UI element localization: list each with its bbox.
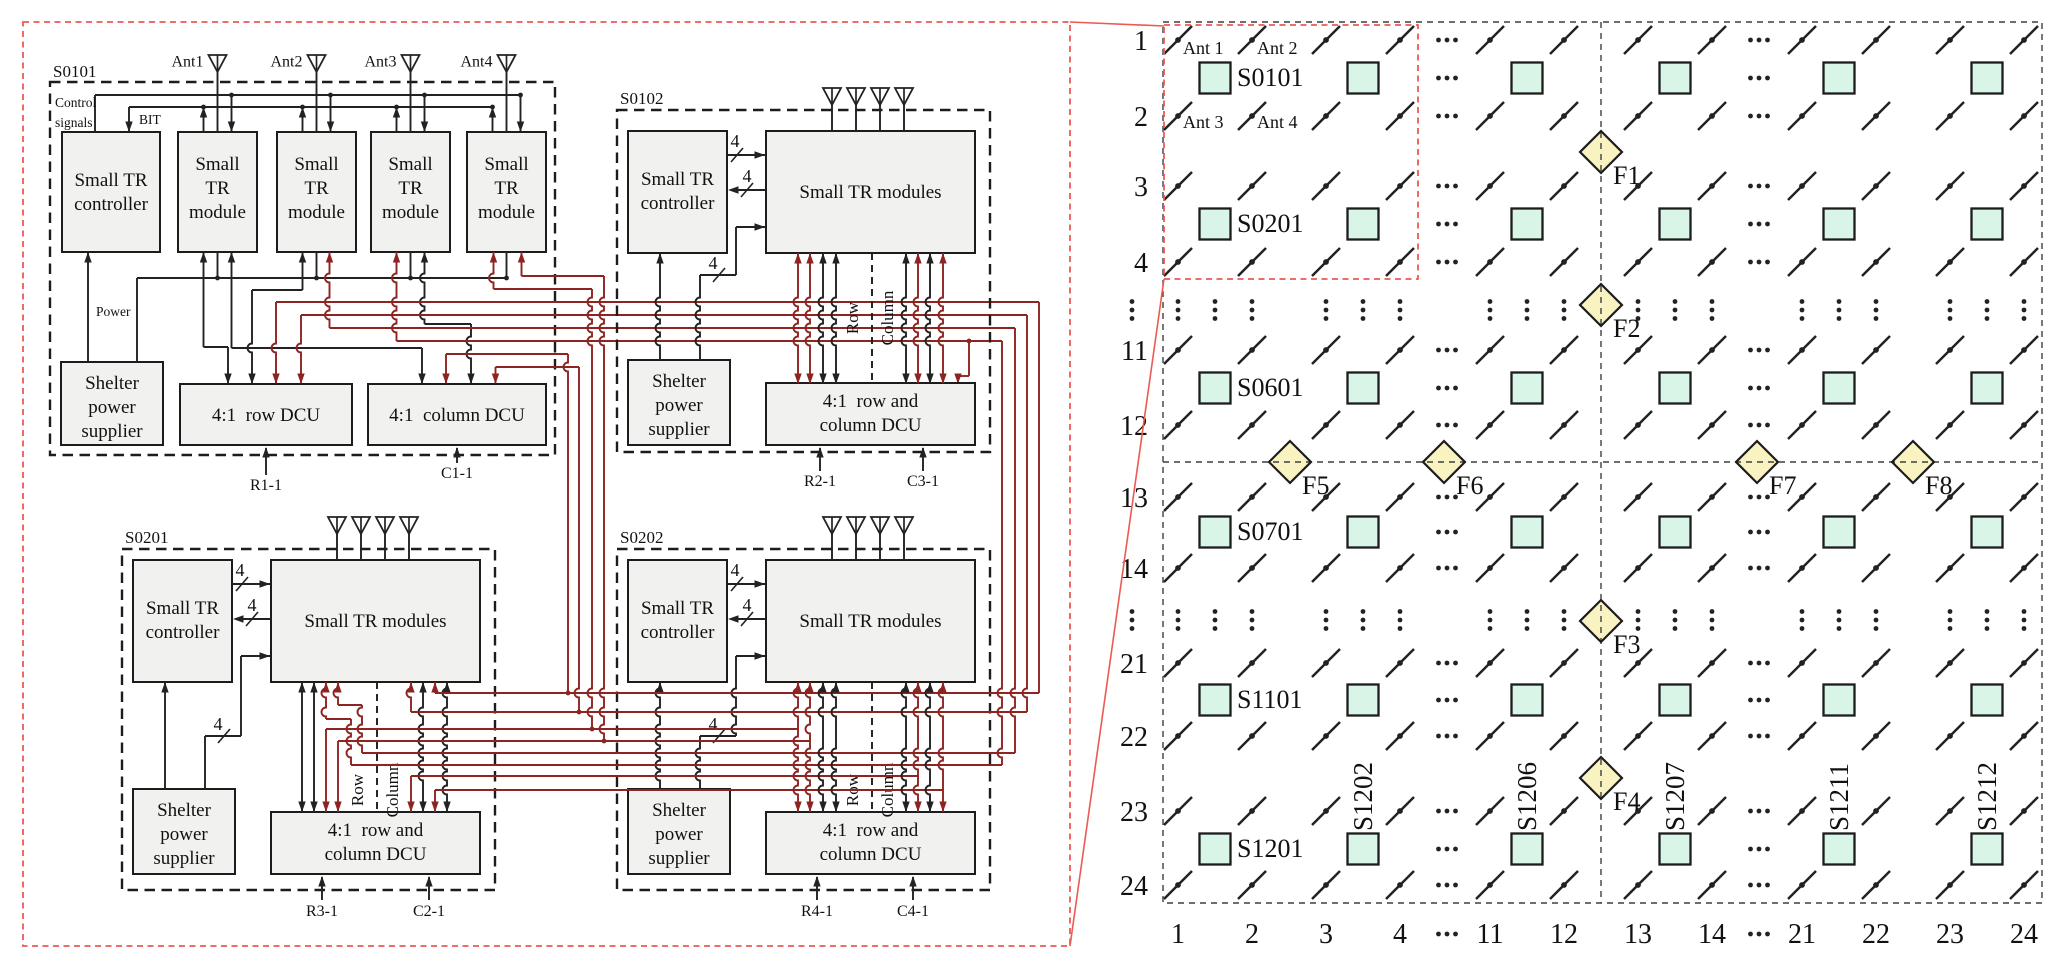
svg-text:TR: TR [494, 178, 519, 199]
interconnect bus L8 [492, 367, 582, 714]
interconnect bus L6 [392, 252, 1002, 765]
svg-text:Small TR modules: Small TR modules [799, 611, 941, 632]
svg-text:R3-1: R3-1 [306, 903, 338, 920]
small TR module M2 [277, 132, 356, 252]
svg-text:TR: TR [398, 178, 423, 199]
svg-text:supplier: supplier [648, 419, 710, 440]
S0102 small TR controller [628, 131, 727, 253]
label F7 [1769, 471, 1796, 500]
svg-text:23: 23 [1936, 919, 1964, 950]
svg-text:Small TR: Small TR [146, 598, 219, 619]
svg-text:supplier: supplier [81, 421, 143, 442]
svg-text:Power: Power [96, 304, 131, 319]
svg-text:S0101: S0101 [1237, 63, 1303, 92]
interconnect bus L7 [442, 354, 570, 695]
svg-text:power: power [88, 397, 136, 418]
svg-text:F3: F3 [1613, 630, 1640, 659]
svg-text:4: 4 [1393, 919, 1407, 950]
svg-text:14: 14 [1698, 919, 1726, 950]
svg-text:controller: controller [146, 622, 221, 643]
lower bus Y6 [322, 682, 1003, 765]
svg-text:24: 24 [1120, 871, 1148, 902]
svg-text:power: power [655, 824, 703, 845]
svg-text:22: 22 [1120, 722, 1148, 753]
svg-text:4: 4 [731, 131, 740, 151]
antenna array row 1 [1164, 26, 2038, 54]
wire M2 to row DCU [248, 252, 307, 384]
label F1 [1613, 161, 1640, 190]
interconnect bus L2 [489, 252, 594, 731]
subsystem S0101 dashed box [50, 62, 555, 455]
svg-text:R4-1: R4-1 [801, 903, 833, 920]
svg-text:2: 2 [1245, 919, 1259, 950]
interconnect bus L5 [325, 252, 1015, 753]
S0202 wire modules-DCU v823 [819, 682, 827, 812]
svg-text:controller: controller [641, 622, 716, 643]
svg-text:Ant3: Ant3 [365, 54, 397, 71]
svg-text:S0701: S0701 [1237, 517, 1303, 546]
feed diamond F7 [1736, 441, 1778, 483]
S0201 wire modules-DCU v302 [298, 682, 305, 812]
antenna Ant3 [365, 54, 420, 133]
svg-text:Ant4: Ant4 [461, 54, 493, 71]
subsystem S0202 dashed box [617, 528, 990, 890]
node R4-1 [801, 876, 833, 920]
svg-text:Ant 3: Ant 3 [1183, 112, 1224, 132]
svg-text:Shelter: Shelter [652, 800, 706, 821]
lower bus Y2 [407, 682, 1028, 712]
node C4-1 [897, 876, 929, 920]
subsystem S0201 dashed box [122, 528, 495, 890]
svg-text:F2: F2 [1613, 314, 1640, 343]
svg-text:power: power [160, 824, 208, 845]
S0102 power bus 4 to modules [696, 223, 766, 360]
svg-text:S1201: S1201 [1237, 834, 1303, 863]
svg-text:TR: TR [205, 178, 230, 199]
svg-text:supplier: supplier [153, 848, 215, 869]
shelter power supplier PS1 [61, 362, 163, 445]
interconnect bus L4 [297, 315, 1028, 712]
feed diamond F3 [1580, 600, 1622, 642]
S0201 antennas [328, 517, 418, 560]
svg-text:2: 2 [1134, 102, 1148, 133]
svg-text:R2-1: R2-1 [804, 473, 836, 490]
S0202 small TR controller [628, 560, 727, 682]
svg-text:S1101: S1101 [1237, 685, 1303, 714]
S0202 wire modules-DCU v930 [926, 682, 934, 812]
subarray squares row S06xx [1200, 373, 2003, 404]
svg-text:Small TR modules: Small TR modules [304, 611, 446, 632]
feed diamond F6 [1423, 441, 1465, 483]
svg-text:4:1 row and: 4:1 row and [328, 820, 424, 841]
svg-text:Control: Control [55, 95, 97, 110]
svg-text:3: 3 [1319, 919, 1333, 950]
S0201 4:1 row and column DCU [271, 812, 480, 874]
svg-text:controller: controller [74, 194, 149, 215]
BIT status bus [125, 105, 496, 132]
svg-text:1: 1 [1134, 26, 1148, 57]
svg-text:11: 11 [1121, 336, 1148, 367]
S0202 shelter power supplier [628, 789, 730, 874]
antenna Ant1 [172, 54, 227, 133]
S0202 4:1 row and column DCU [766, 812, 975, 874]
antenna Ant4 [461, 54, 516, 133]
svg-text:4:1 row and: 4:1 row and [823, 391, 919, 412]
antenna array row 22 [1164, 722, 2038, 750]
svg-text:4: 4 [248, 595, 257, 615]
svg-text:F8: F8 [1925, 471, 1952, 500]
svg-text:Ant 2: Ant 2 [1257, 38, 1298, 58]
subarray squares row S02xx [1200, 209, 2003, 240]
4:1 column DCU [368, 384, 546, 445]
lower bus Y8 [431, 682, 946, 812]
S0102 4:1 row and column DCU [766, 383, 975, 445]
lower bus Y5 [334, 682, 1016, 753]
antenna array row 2 [1164, 102, 2038, 130]
svg-text:Small: Small [484, 154, 528, 175]
S0201 power wire to controller [161, 682, 168, 789]
array antenna labels Ant1-Ant4 [1183, 38, 1298, 132]
S0202 wire modules-DCU v906 [902, 682, 910, 812]
node R3-1 [306, 876, 338, 920]
svg-text:4: 4 [709, 253, 718, 273]
svg-text:controller: controller [641, 193, 716, 214]
subarray squares row S07xx [1200, 517, 2003, 548]
S0201 internal row column divider [348, 682, 402, 817]
svg-text:S1211: S1211 [1824, 763, 1854, 831]
svg-text:supplier: supplier [648, 848, 710, 869]
svg-text:BIT: BIT [139, 112, 162, 127]
svg-text:Small TR modules: Small TR modules [799, 182, 941, 203]
array ellipsis dots [1130, 38, 2027, 937]
feed diamond outlines redraw [1269, 131, 1934, 799]
svg-text:module: module [478, 202, 535, 223]
4:1 row DCU [180, 384, 352, 445]
svg-text:23: 23 [1120, 797, 1148, 828]
subarray squares row S01xx [1200, 63, 2003, 94]
wire M1 to column DCU [228, 252, 426, 384]
small TR controller U1 [62, 132, 160, 252]
node R1-1 [250, 447, 282, 494]
svg-text:S1207: S1207 [1660, 762, 1690, 831]
svg-text:S1202: S1202 [1348, 762, 1378, 831]
svg-text:Small: Small [195, 154, 239, 175]
svg-text:Row: Row [348, 773, 367, 806]
svg-text:Small TR: Small TR [641, 598, 714, 619]
node C3-1 [907, 447, 939, 490]
svg-text:3: 3 [1134, 172, 1148, 203]
S0202 internal row column divider [843, 682, 897, 817]
label F4 [1613, 787, 1640, 816]
power bus wire [137, 252, 509, 362]
S0201 small TR modules [271, 560, 480, 682]
S0202 wire DCU v810 lower [806, 741, 814, 812]
svg-text:signals: signals [55, 115, 93, 130]
S0201 wire modules-DCU v447 [443, 682, 451, 812]
lower bus Y1 [431, 682, 1039, 693]
power wire PS1 to controller [84, 252, 131, 362]
subarray labels [1237, 63, 2002, 863]
small TR module M4 [467, 132, 546, 252]
svg-text:1: 1 [1171, 919, 1185, 950]
svg-text:Ant 1: Ant 1 [1183, 38, 1224, 58]
subsystem S0102 dashed box [617, 89, 990, 452]
S0202 antennas [823, 517, 913, 560]
S0102 wire modules-DCU v943 [939, 253, 947, 384]
svg-text:column DCU: column DCU [820, 844, 922, 865]
S0201 wire modules-DCU v314 [310, 682, 317, 812]
svg-text:S1212: S1212 [1972, 762, 2002, 831]
small TR module M3 [371, 132, 450, 252]
svg-text:12: 12 [1550, 919, 1578, 950]
lower bus Y7 [407, 682, 921, 812]
S0102 wire modules-DCU v810 [806, 253, 814, 384]
S0102 control bus 4 to modules [727, 131, 765, 162]
antenna array row 11 [1164, 336, 2038, 364]
label F8 [1925, 471, 1952, 500]
S0201 small TR controller [133, 560, 232, 682]
S0102 wire modules-DCU v798 [794, 253, 802, 384]
S0102 wire modules-DCU v906 [902, 253, 910, 384]
antenna array row 23 [1164, 797, 2038, 825]
small TR module M1 [178, 132, 257, 252]
svg-text:Shelter: Shelter [85, 373, 139, 394]
svg-text:4: 4 [743, 595, 752, 615]
S0102 antennas [823, 88, 913, 131]
svg-text:S0601: S0601 [1237, 373, 1303, 402]
svg-text:module: module [288, 202, 345, 223]
svg-text:Column: Column [878, 290, 897, 345]
svg-text:F6: F6 [1456, 471, 1483, 500]
svg-text:module: module [382, 202, 439, 223]
lower bus Y3 [322, 682, 801, 812]
subarray squares row S11xx [1200, 685, 2003, 716]
interconnect bus L1 [518, 252, 607, 743]
svg-text:4:1 column DCU: 4:1 column DCU [389, 405, 525, 426]
antenna array row 3 [1164, 172, 2038, 200]
S0102 small TR modules [766, 131, 975, 253]
S0102 internal row column divider [843, 253, 897, 383]
svg-text:Small TR: Small TR [641, 169, 714, 190]
antenna array row 12 [1164, 411, 2038, 439]
S0102 wire modules-DCU v823 [819, 253, 827, 384]
S0201 status bus 4 to controller [233, 595, 271, 626]
S0202 wire modules-DCU v836 [832, 682, 840, 812]
svg-text:C2-1: C2-1 [413, 903, 445, 920]
zoom callout red dashed boxes [23, 22, 1418, 946]
antenna array row 24 [1164, 871, 2038, 899]
S0202 power bus 4 to modules [696, 652, 766, 789]
svg-text:S0201: S0201 [1237, 209, 1303, 238]
feed diamond F4 [1580, 757, 1622, 799]
svg-text:Ant1: Ant1 [172, 54, 204, 71]
S0102 status bus 4 to controller [728, 166, 766, 197]
label F5 [1302, 471, 1329, 500]
S0102 shelter power supplier [628, 360, 730, 445]
svg-text:4: 4 [236, 560, 245, 580]
svg-text:11: 11 [1477, 919, 1504, 950]
S0201 shelter power supplier [133, 789, 235, 874]
svg-text:Ant2: Ant2 [271, 54, 303, 71]
svg-text:13: 13 [1624, 919, 1652, 950]
antenna array row 21 [1164, 649, 2038, 677]
S0201 power bus 4 to modules [205, 652, 270, 789]
feed diamond F1 [1580, 131, 1622, 173]
grid row labels [1120, 26, 1148, 902]
grid column labels [1171, 919, 2038, 950]
S0102 wire modules-DCU v836 [832, 253, 840, 384]
S0202 wire DCU v798 lower [794, 729, 802, 812]
feed diamond F2 [1580, 284, 1622, 326]
svg-text:C3-1: C3-1 [907, 473, 939, 490]
svg-text:Column: Column [383, 762, 402, 817]
svg-text:S0201: S0201 [125, 528, 168, 547]
control signals bus [55, 93, 524, 132]
wire M1 to row DCU [200, 252, 232, 384]
S0102 power wire to controller [656, 253, 664, 360]
subarray squares row S12xx [1200, 834, 2003, 865]
wire M3 to column DCU [420, 252, 475, 384]
lower bus Y4 [334, 682, 813, 812]
feed diamond F8 [1892, 441, 1934, 483]
svg-text:4:1 row DCU: 4:1 row DCU [212, 405, 320, 426]
node R2-1 [804, 447, 836, 490]
S0102 wire modules-DCU v918 [914, 253, 922, 384]
svg-text:column DCU: column DCU [325, 844, 427, 865]
svg-text:21: 21 [1788, 919, 1816, 950]
svg-text:24: 24 [2010, 919, 2038, 950]
svg-text:4:1 row and: 4:1 row and [823, 820, 919, 841]
svg-text:Shelter: Shelter [157, 800, 211, 821]
svg-text:4: 4 [731, 560, 740, 580]
svg-text:Small: Small [388, 154, 432, 175]
S0202 small TR modules [766, 560, 975, 682]
S0202 status bus 4 to controller [728, 595, 766, 626]
svg-text:Row: Row [843, 301, 862, 334]
svg-text:module: module [189, 202, 246, 223]
svg-text:column DCU: column DCU [820, 415, 922, 436]
antenna Ant2 [271, 54, 326, 133]
svg-text:F5: F5 [1302, 471, 1329, 500]
svg-text:S1206: S1206 [1512, 762, 1542, 831]
S0102 wire modules-DCU v930 [926, 253, 934, 384]
feed diamond F5 [1269, 441, 1311, 483]
S0201 wire modules-DCU v423 [419, 682, 427, 812]
svg-text:S0102: S0102 [620, 89, 663, 108]
node C2-1 [413, 876, 445, 920]
antenna array row 4 [1164, 248, 2038, 276]
svg-text:4: 4 [1134, 248, 1148, 279]
svg-text:R1-1: R1-1 [250, 477, 282, 494]
svg-text:Shelter: Shelter [652, 371, 706, 392]
svg-text:22: 22 [1862, 919, 1890, 950]
grid dashed borders [1163, 22, 2042, 903]
label F3 [1613, 630, 1640, 659]
svg-text:S0101: S0101 [53, 62, 96, 81]
svg-text:Small: Small [294, 154, 338, 175]
svg-text:C1-1: C1-1 [441, 465, 473, 482]
svg-text:TR: TR [304, 178, 329, 199]
svg-text:21: 21 [1120, 649, 1148, 680]
label F6 [1456, 471, 1483, 500]
antenna array row 14 [1164, 554, 2038, 582]
svg-text:F7: F7 [1769, 471, 1796, 500]
svg-text:F4: F4 [1613, 787, 1640, 816]
svg-text:4: 4 [743, 166, 752, 186]
S0202 power wire to controller [656, 682, 664, 789]
interconnect bus L3 [272, 302, 1040, 693]
svg-text:power: power [655, 395, 703, 416]
S0202 control bus 4 to modules [727, 560, 765, 591]
svg-text:4: 4 [214, 714, 223, 734]
node C1-1 [441, 447, 473, 482]
S0201 control bus 4 to modules [232, 560, 270, 591]
svg-text:Ant 4: Ant 4 [1257, 112, 1298, 132]
antenna array row 13 [1164, 483, 2038, 511]
svg-text:S0202: S0202 [620, 528, 663, 547]
label F2 [1613, 314, 1640, 343]
svg-text:F1: F1 [1613, 161, 1640, 190]
svg-text:C4-1: C4-1 [897, 903, 929, 920]
svg-text:Small TR: Small TR [74, 170, 147, 191]
svg-text:4: 4 [709, 714, 718, 734]
